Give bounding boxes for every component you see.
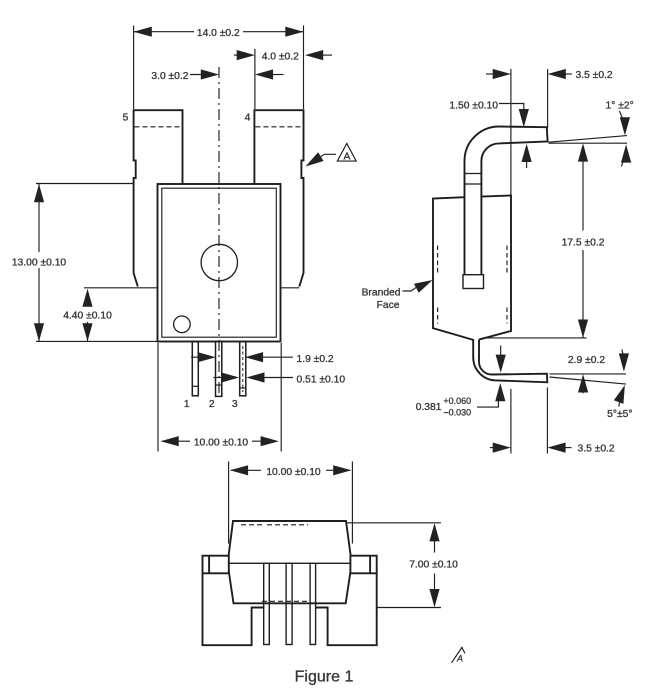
- svg-text:5°±5°: 5°±5°: [607, 409, 632, 420]
- dimension 2.9 ±0.2 (lead offset): [568, 349, 629, 393]
- svg-text:17.5 ±0.2: 17.5 ±0.2: [562, 238, 605, 249]
- package body (bottom view): [228, 521, 352, 603]
- svg-text:1.9 ±0.2: 1.9 ±0.2: [297, 354, 334, 365]
- extension line front body right: [280, 343, 282, 452]
- dimension 10.00 ±0.10 (bottom view width): [230, 465, 352, 478]
- hidden line bottom: [262, 600, 308, 602]
- svg-text:10.00 ±0.10: 10.00 ±0.10: [194, 437, 249, 448]
- svg-text:2.9 ±0.2: 2.9 ±0.2: [568, 355, 605, 366]
- dimension 13.00 ±0.10 (body height): [12, 184, 67, 341]
- pin-1 marker (small circle): [174, 316, 191, 333]
- extension line bottom view left: [228, 462, 230, 544]
- extension line bottom body right face: [510, 389, 512, 454]
- svg-text:4: 4: [245, 113, 251, 124]
- svg-text:A: A: [343, 151, 350, 162]
- dimension 0.51 ±0.10 (pin thickness): [213, 372, 345, 385]
- dimension 4.40 ±0.10 (tab bottom to body bottom): [63, 289, 112, 342]
- dimension 0.381 +0.060/-0.030 (lead thickness bottom): [416, 346, 506, 418]
- hidden lines top: [241, 524, 308, 526]
- svg-text:0.51 ±0.10: 0.51 ±0.10: [297, 375, 346, 386]
- package body (front view outer): [158, 184, 281, 342]
- lead slot bottom pad: [463, 275, 484, 289]
- svg-text:1: 1: [184, 399, 190, 410]
- svg-text:+0.060: +0.060: [443, 396, 471, 406]
- pin 3: [240, 342, 246, 396]
- pin 1 (bottom view): [264, 563, 270, 644]
- pin 2 (bottom view): [286, 563, 292, 644]
- angle 1° ±2° label and leader: [605, 101, 633, 167]
- extension line bottom view right: [351, 462, 353, 544]
- datum flag A (front view): [306, 144, 357, 167]
- tab bottom edge left (with 4.40 extension): [84, 287, 158, 289]
- svg-text:Figure 1: Figure 1: [295, 669, 354, 686]
- extension line for 4.0 dim (tab 4 left edge): [254, 49, 256, 109]
- tab 5 hidden line: [135, 126, 182, 128]
- dimension 1.50 ±0.10 (lead thickness): [449, 100, 531, 168]
- tab bottom edge right: [281, 287, 300, 289]
- svg-text:Face: Face: [377, 300, 400, 311]
- left terminal tab (bottom view): [203, 556, 264, 646]
- datum flag A (bottom right, italic): [452, 647, 465, 663]
- Branded Face label: [362, 280, 433, 311]
- svg-text:4.0 ±0.2: 4.0 ±0.2: [262, 52, 299, 63]
- angle 5°±5° label and leader: [607, 385, 632, 420]
- dimension 4.0 ±0.2 (tab 4 width): [234, 50, 332, 63]
- dimension 3.5 ±0.2 (bottom lead length): [490, 443, 615, 455]
- 5 degree angle lines: [549, 373, 626, 375]
- package body (side view): [433, 196, 511, 340]
- pin 3 hidden line: [242, 346, 244, 392]
- center line (front view): [218, 67, 220, 396]
- lead tick marks: [465, 174, 482, 185]
- extension line body top: [36, 183, 134, 185]
- extension line left of 14.0 dim: [133, 26, 135, 110]
- tab 4 hidden line: [255, 126, 302, 128]
- svg-text:5: 5: [123, 113, 129, 124]
- extension line top lead end: [547, 69, 549, 128]
- extension line bottom lead end: [546, 388, 548, 454]
- pin 1: [192, 342, 198, 396]
- svg-text:0.381: 0.381: [416, 402, 442, 413]
- svg-text:3.0 ±0.2: 3.0 ±0.2: [151, 71, 188, 82]
- tab 5 (top-left terminal): [134, 110, 183, 286]
- top lead (bent terminal, side view): [465, 127, 548, 275]
- right terminal tab (bottom view): [316, 556, 377, 646]
- pin 3 (bottom view): [310, 563, 316, 644]
- extension line right of 14.0 dim: [303, 26, 305, 110]
- dimension 17.5 ±0.2 (lead to lead height): [562, 143, 605, 337]
- dimension 10.00 ±0.10 (front body width): [161, 436, 279, 448]
- bottom lead (bent terminal, side view): [473, 339, 547, 382]
- svg-text:A: A: [456, 654, 463, 664]
- svg-text:3.5 ±0.2: 3.5 ±0.2: [578, 444, 615, 455]
- svg-text:1.50 ±0.10: 1.50 ±0.10: [449, 100, 498, 111]
- svg-text:13.00 ±0.10: 13.00 ±0.10: [12, 258, 67, 269]
- svg-text:1° ±2°: 1° ±2°: [605, 101, 633, 112]
- extension line side body right face: [510, 69, 512, 196]
- package body (front view inner): [162, 188, 276, 337]
- svg-text:10.00 ±0.10: 10.00 ±0.10: [266, 467, 321, 478]
- dimension 14.0 ±0.2 (front view overall width): [134, 27, 304, 39]
- hidden lines right face: [506, 246, 508, 324]
- svg-text:4.40 ±0.10: 4.40 ±0.10: [63, 310, 112, 321]
- extension line front body left: [157, 343, 159, 452]
- dimension 7.00 ±0.10 (bottom view height): [347, 523, 459, 608]
- svg-text:14.0 ±0.2: 14.0 ±0.2: [197, 28, 240, 39]
- svg-text:3.5 ±0.2: 3.5 ±0.2: [576, 70, 613, 81]
- dimension 3.5 ±0.2 (top lead length, side view): [486, 69, 613, 81]
- hole (large circle): [201, 244, 237, 280]
- svg-text:2: 2: [209, 399, 215, 410]
- reference line at body bottom: [483, 337, 587, 339]
- dimension 1.9 ±0.2 (pin pitch): [191, 352, 334, 365]
- dimension 3.0 ±0.2 (center to tab 4 edge): [151, 69, 283, 82]
- tab 4 (top-right terminal): [254, 110, 303, 286]
- pin 2: [216, 342, 222, 397]
- body mid line: [228, 562, 352, 564]
- svg-text:−0.030: −0.030: [443, 408, 471, 418]
- svg-text:7.00 ±0.10: 7.00 ±0.10: [409, 559, 458, 570]
- hidden lines left face: [437, 246, 439, 324]
- svg-text:3: 3: [232, 399, 238, 410]
- 1 degree angle lines: [549, 142, 628, 144]
- extension line body bottom: [36, 340, 158, 342]
- svg-text:Branded: Branded: [362, 287, 401, 298]
